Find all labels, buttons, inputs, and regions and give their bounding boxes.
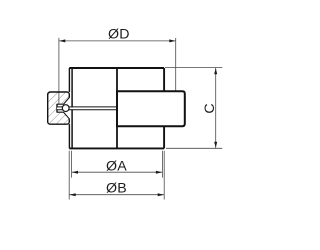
svg-text:ØD: ØD [108,27,130,43]
svg-text:ØA: ØA [106,158,127,174]
svg-text:ØB: ØB [106,180,127,196]
svg-text:C: C [202,103,218,114]
